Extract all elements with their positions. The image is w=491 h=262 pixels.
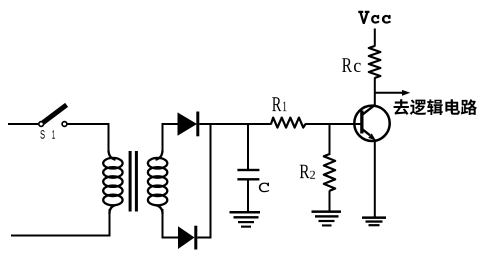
diode D1 (top) — [162, 112, 200, 137]
wire main node from D1 to R1 — [199, 123, 271, 125]
ground under R2 — [312, 210, 342, 226]
label R1 — [272, 97, 286, 111]
label Vcc — [358, 11, 391, 24]
wire AC input top-left — [8, 123, 38, 125]
wire R2 to ground — [329, 191, 331, 213]
wire bridge right vertical — [210, 123, 212, 239]
wire R2 top lead — [329, 123, 331, 155]
wire AC input bottom-left — [11, 235, 110, 237]
ground under emitter — [362, 216, 386, 226]
transformer T1 secondary winding — [148, 151, 167, 215]
transformer T1 primary winding — [103, 151, 122, 215]
wire Vcc to Rc — [374, 29, 376, 47]
text 去 — [394, 99, 409, 115]
wire R1 to transistor base — [305, 123, 361, 125]
wire emitter down — [374, 140, 376, 218]
wire transformer primary bottom lead — [109, 209, 111, 237]
label S1 — [40, 130, 55, 139]
resistor R1 — [271, 118, 305, 128]
text 逻 — [410, 100, 426, 116]
label R2 — [300, 165, 315, 179]
resistor Rc — [369, 46, 381, 78]
wire secondary bottom lead — [162, 209, 164, 239]
text 电 — [445, 99, 460, 115]
transformer T1 core — [129, 151, 138, 212]
capacitor C lead top — [247, 123, 249, 170]
arrow to logic circuit — [375, 90, 410, 96]
resistor R2 — [324, 154, 335, 191]
switch S1 — [39, 105, 67, 127]
wire capacitor to ground — [247, 180, 249, 212]
text 路 — [461, 99, 477, 115]
wire switch to transformer primary top — [67, 124, 108, 152]
text 辑 — [427, 99, 443, 115]
wire collector up — [374, 78, 376, 106]
label: to logic circuit (Chinese) — [394, 99, 477, 115]
diode D2 (bottom) — [162, 226, 212, 250]
capacitor C plates — [237, 169, 259, 181]
capacitor C value label — [259, 183, 269, 193]
ground under capacitor — [230, 211, 261, 228]
transistor Q1 — [354, 105, 389, 141]
wire secondary top lead — [162, 123, 164, 152]
label Rc — [342, 58, 361, 72]
